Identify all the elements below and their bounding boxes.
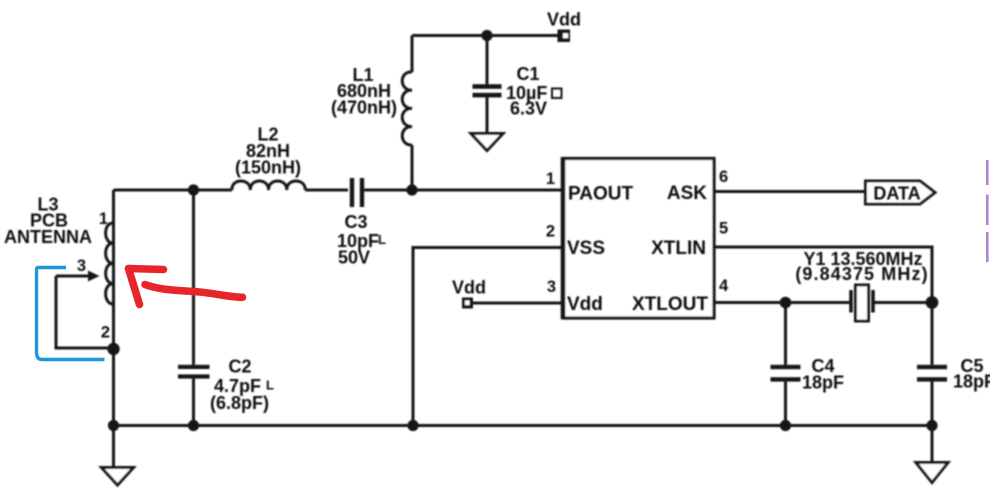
svg-text:L: L	[266, 378, 274, 393]
svg-text:3: 3	[77, 257, 86, 275]
Vdd terminal (pin3)	[462, 298, 473, 309]
wire IC pin4 XTLOUT	[715, 301, 851, 304]
node rail/L1 junction	[406, 184, 417, 195]
wire top rail to Vdd	[412, 34, 558, 37]
svg-text:3: 3	[547, 278, 556, 296]
node bottom/C5	[926, 420, 937, 431]
wire right ground stub	[931, 426, 934, 463]
svg-text:PAOUT: PAOUT	[568, 184, 633, 205]
annotation red arrow tail stroke	[145, 285, 243, 298]
Vdd terminal (top)	[558, 30, 571, 43]
wire left drop (antenna column)	[112, 190, 115, 426]
node crystal right	[926, 296, 939, 309]
purple mark 3	[986, 232, 989, 262]
op IC U1 body	[563, 159, 714, 319]
svg-text:(9.84375 MHz): (9.84375 MHz)	[795, 264, 928, 284]
ground (right)	[916, 463, 948, 483]
wire IC pin2 VSS	[413, 248, 561, 426]
svg-text:DATA: DATA	[873, 184, 920, 204]
capacitor C2	[178, 190, 210, 426]
svg-text:L: L	[378, 232, 386, 247]
annotation red arrow head stroke	[129, 269, 164, 270]
purple mark 2	[986, 195, 989, 226]
svg-text:2: 2	[546, 223, 555, 241]
capacitor C1	[473, 36, 502, 134]
node crystal left	[780, 297, 792, 309]
svg-text:1: 1	[99, 210, 108, 228]
purple mark 1	[986, 160, 989, 185]
wire IC pin3 Vdd	[473, 302, 561, 305]
inductor L2	[232, 181, 305, 190]
node bottom/C4	[780, 420, 791, 431]
svg-text:Vdd: Vdd	[567, 294, 603, 315]
svg-text:2: 2	[101, 324, 110, 342]
svg-text:(150nH): (150nH)	[235, 158, 301, 178]
inductor L1	[402, 72, 412, 145]
capacitor C5	[917, 303, 947, 426]
svg-text:4: 4	[719, 277, 729, 295]
ground (left)	[102, 468, 134, 486]
svg-text:5: 5	[719, 220, 728, 238]
node top-rail/C1 junction	[481, 30, 492, 41]
capacitor C3	[350, 178, 364, 207]
svg-text:VSS: VSS	[567, 238, 605, 259]
wire main rail y=190 left segment	[114, 189, 233, 192]
svg-text:6.3V: 6.3V	[510, 99, 547, 119]
svg-text:50V: 50V	[338, 248, 370, 268]
node bottom/C2	[188, 420, 199, 431]
svg-text:6: 6	[719, 168, 728, 186]
svg-text:(6.8pF): (6.8pF)	[210, 393, 269, 413]
svg-text:C3: C3	[344, 212, 367, 232]
wire bottom rail	[114, 424, 933, 427]
svg-text:18pF: 18pF	[953, 372, 990, 392]
antenna tap arrow (pin 3)	[56, 271, 100, 282]
svg-text:C2: C2	[228, 357, 251, 377]
svg-text:XTLIN: XTLIN	[651, 238, 706, 259]
wire L1 top	[411, 36, 414, 73]
wire blue annotation bracket	[37, 268, 105, 360]
ground (C1)	[471, 134, 503, 151]
svg-text:ASK: ASK	[667, 183, 707, 204]
wire tap loop	[56, 276, 114, 348]
svg-text:XTLOUT: XTLOUT	[632, 294, 708, 315]
crystal Y1	[851, 285, 932, 321]
wire rail C3 to IC pin1	[364, 189, 561, 192]
svg-text:Vdd: Vdd	[452, 278, 486, 298]
svg-text:ANTENNA: ANTENNA	[4, 227, 92, 247]
wire rail L2 to C3	[305, 189, 348, 192]
svg-text:1: 1	[546, 170, 555, 188]
wire IC pin6 ASK to DATA	[715, 190, 866, 193]
capacitor C4	[771, 303, 801, 426]
wire left ground stub	[112, 426, 115, 468]
wire L1 bottom	[411, 145, 414, 190]
node rail/C2 junction	[188, 184, 199, 195]
op IC U1 left edge emphasis	[561, 157, 566, 319]
svg-text:Vdd: Vdd	[547, 10, 581, 30]
svg-text:C1: C1	[516, 64, 539, 84]
svg-text:18pF: 18pF	[802, 373, 844, 393]
node bottom/VSS drop	[407, 420, 418, 431]
wire IC pin5 XTLIN	[715, 247, 933, 303]
svg-text:(470nH): (470nH)	[331, 98, 397, 118]
node bottom/left	[108, 420, 119, 431]
annotation red arrow diagonal stroke	[129, 269, 140, 305]
DATA tag	[866, 181, 936, 204]
value box after 10uF	[552, 89, 562, 99]
node antenna pin2 junction	[107, 343, 119, 355]
antenna L3 coil	[106, 223, 114, 304]
